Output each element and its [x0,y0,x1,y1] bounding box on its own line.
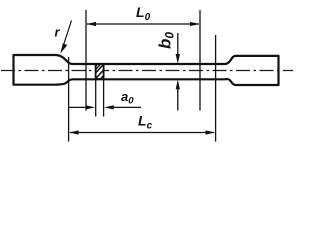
r leader line with arrow to fillet [60,21,71,54]
Lc dimension line [69,130,215,134]
a0 left leader with arrow [69,105,95,109]
Lc right extension line [215,35,217,142]
a0 right leader with arrow [104,105,141,109]
L0 right extension line (gauge mark) [199,10,201,111]
b0 lower arrow (points up to gauge bottom edge) [176,80,180,111]
Lc left extension line [68,57,70,142]
specimen outline (dog-bone tensile specimen) [14,55,279,85]
a0 right extension line [103,80,105,117]
a0 left extension line [95,80,97,117]
b0 upper arrow (points down to gauge top edge) [176,33,180,64]
L0 left extension line (gauge mark) [85,10,87,111]
hatched cross-section a0 x b0 [90,57,111,89]
centerline (dash-dot axis) [1,70,293,72]
L0 dimension line [87,22,200,26]
